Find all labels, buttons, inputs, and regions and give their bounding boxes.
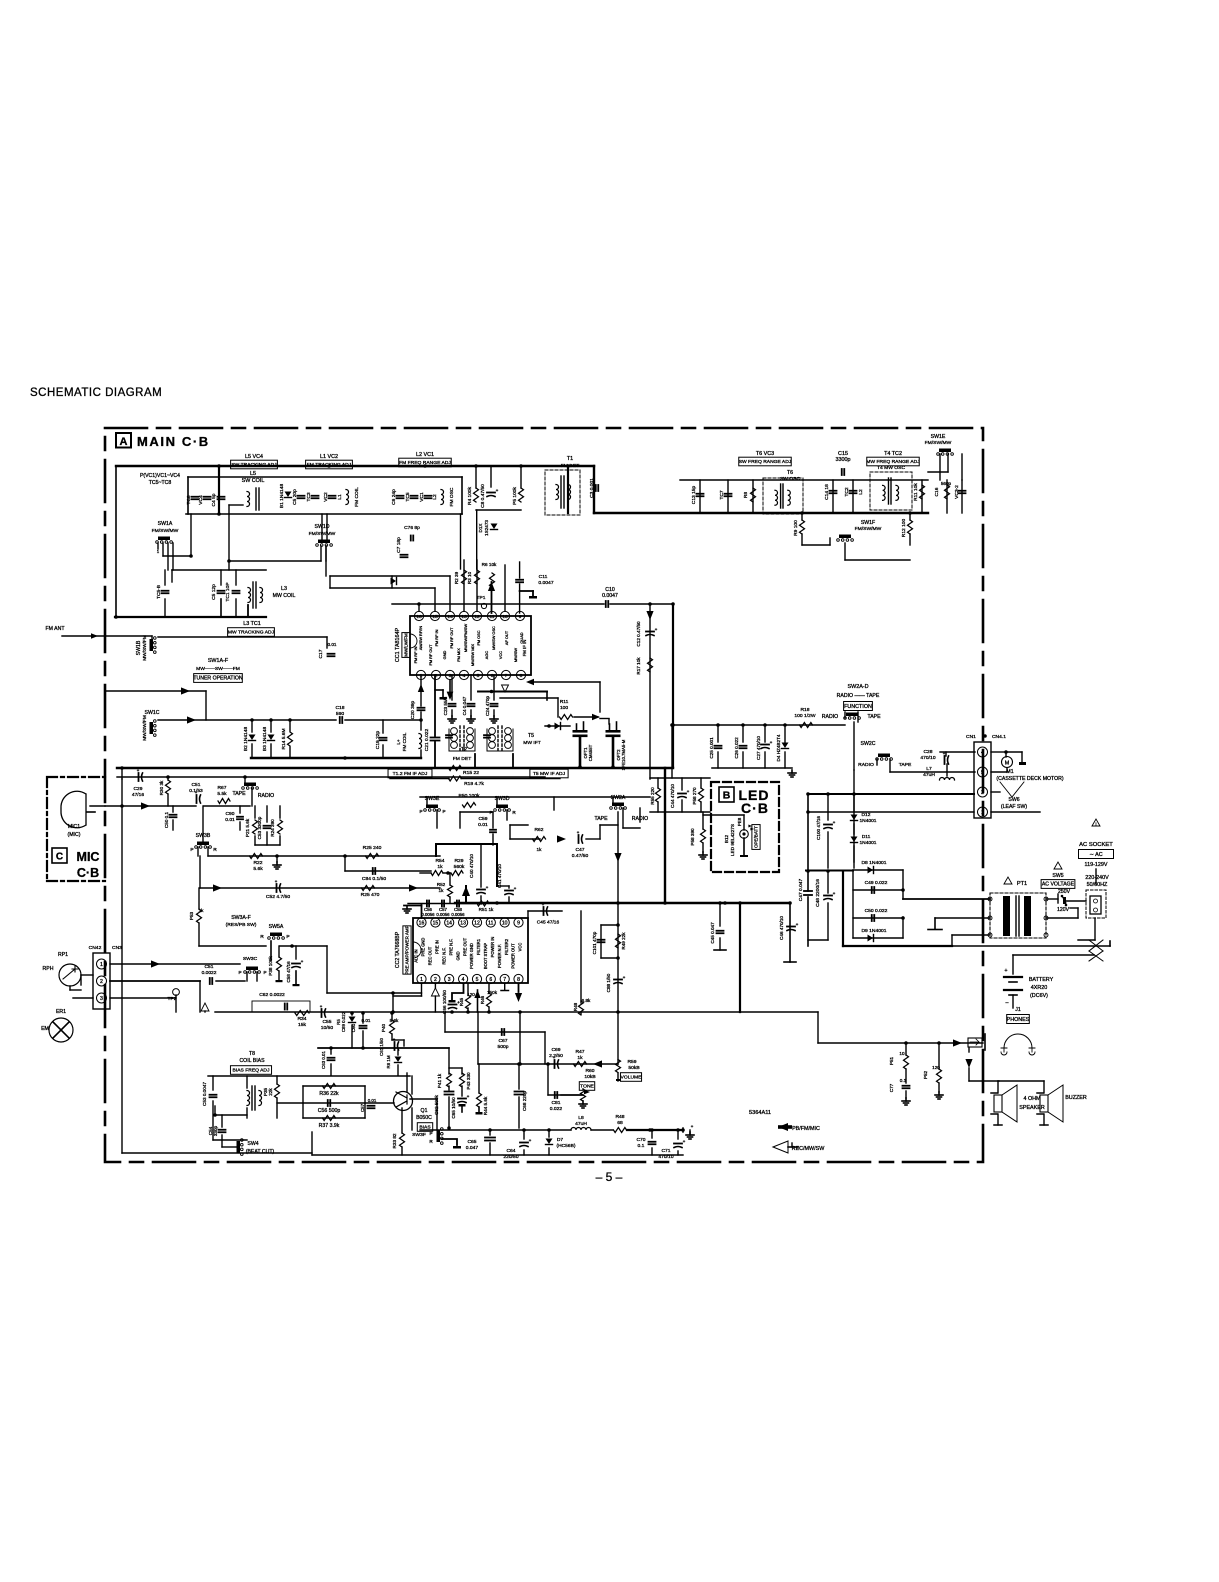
svg-text:P: P (190, 847, 193, 853)
svg-text:FM MIX: FM MIX (456, 648, 461, 662)
svg-text:C101 470p: C101 470p (592, 931, 597, 954)
svg-text:R46: R46 (480, 995, 485, 1004)
svg-text:–: – (1006, 1000, 1009, 1006)
svg-text:R15 22: R15 22 (463, 770, 479, 776)
svg-text:0.01: 0.01 (225, 817, 235, 823)
svg-text:47/16: 47/16 (132, 792, 144, 798)
svg-text:SW1C: SW1C (145, 710, 160, 716)
svg-text:P51: P51 (889, 1056, 894, 1065)
svg-text:+: + (301, 959, 304, 964)
svg-text:SW1A-F: SW1A-F (208, 658, 229, 664)
svg-text:B050C: B050C (416, 1115, 432, 1121)
svg-text:P40: P40 (381, 1023, 386, 1032)
svg-text:P21 5.6k: P21 5.6k (245, 818, 250, 837)
svg-text:R6 1M: R6 1M (386, 1055, 391, 1068)
svg-text:REC/MW/SW: REC/MW/SW (792, 1146, 826, 1152)
svg-text:L1: L1 (337, 494, 343, 500)
svg-text:C13 15p: C13 15p (691, 486, 697, 505)
svg-text:10kB: 10kB (584, 1074, 596, 1080)
svg-text:VC3-2: VC3-2 (954, 485, 960, 499)
svg-text:D8 1N4001: D8 1N4001 (861, 860, 886, 866)
svg-text:Q1: Q1 (421, 1108, 428, 1114)
svg-text:8: 8 (520, 673, 523, 679)
svg-text:+: + (486, 885, 489, 890)
svg-text:C64: C64 (506, 1148, 515, 1154)
svg-text:4XR20: 4XR20 (1031, 985, 1047, 991)
svg-text:4: 4 (463, 673, 466, 679)
svg-text:VC2: VC2 (323, 492, 329, 502)
svg-text:P52: P52 (923, 1070, 928, 1079)
svg-text:SFE10.7MA5-M: SFE10.7MA5-M (621, 739, 626, 770)
svg-text:11: 11 (488, 921, 493, 927)
svg-text:+: + (467, 1094, 470, 1099)
svg-text:220/50: 220/50 (503, 1154, 518, 1160)
svg-text:L8: L8 (578, 1115, 584, 1121)
svg-text:T2: T2 (461, 747, 467, 753)
svg-text:C90: C90 (226, 811, 235, 817)
svg-text:R48: R48 (615, 1114, 624, 1120)
svg-text:PE8: PE8 (737, 817, 742, 826)
svg-text:+: + (1004, 968, 1007, 974)
svg-text:C47: C47 (575, 847, 584, 853)
svg-text:R55 220: R55 220 (650, 787, 655, 805)
svg-text:250V: 250V (1058, 889, 1071, 895)
svg-text:FM/SW/MW: FM/SW/MW (152, 528, 179, 534)
svg-text:GND: GND (442, 651, 447, 660)
svg-text:SW3F: SW3F (412, 1132, 426, 1138)
svg-text:R6 10k: R6 10k (482, 562, 497, 567)
svg-text:+: + (687, 789, 690, 794)
svg-text:P58 390: P58 390 (690, 828, 695, 846)
svg-text:R47: R47 (575, 1049, 584, 1055)
svg-text:7: 7 (505, 673, 508, 679)
svg-text:+: + (623, 975, 626, 980)
svg-text:R18: R18 (800, 707, 809, 713)
svg-text:L5 VC4: L5 VC4 (245, 454, 263, 460)
svg-text:R: R (429, 1139, 433, 1144)
svg-text:FM DET: FM DET (453, 756, 471, 762)
svg-text:CM455T: CM455T (588, 744, 593, 761)
svg-text:0.0047: 0.0047 (602, 593, 618, 599)
svg-text:R33 82: R33 82 (392, 1133, 397, 1148)
svg-text:MW/SW MIX: MW/SW MIX (470, 644, 475, 667)
svg-text:1k: 1k (437, 864, 443, 870)
svg-text:C14 18: C14 18 (824, 484, 830, 500)
svg-text:+: + (833, 820, 836, 825)
svg-text:R17 10k: R17 10k (636, 657, 641, 675)
svg-text:560k: 560k (454, 864, 465, 870)
svg-text:FILTER2: FILTER2 (504, 938, 509, 955)
svg-text:SW1F: SW1F (861, 520, 875, 526)
svg-text:3: 3 (448, 977, 451, 983)
svg-text:B: B (723, 790, 731, 802)
svg-text:R45: R45 (459, 997, 464, 1006)
svg-text:R: R (260, 934, 264, 940)
svg-text:SW5: SW5 (1052, 873, 1063, 879)
svg-text:C84 0.1/50: C84 0.1/50 (362, 876, 386, 882)
svg-text:+: + (833, 891, 836, 896)
svg-text:P: P (286, 934, 289, 940)
svg-text:TAPE: TAPE (594, 816, 608, 822)
svg-text:SPEAKER: SPEAKER (1019, 1105, 1045, 1111)
svg-text:P: P (263, 970, 266, 975)
svg-text:(CASSETTE DECK MOTOR): (CASSETTE DECK MOTOR) (996, 776, 1063, 782)
svg-text:+: + (655, 627, 658, 632)
svg-text:RADIO: RADIO (258, 793, 274, 799)
svg-text:C41 470/10: C41 470/10 (497, 864, 502, 888)
svg-text:C60: C60 (351, 1023, 356, 1032)
svg-text:D9 1N4001: D9 1N4001 (861, 928, 886, 934)
svg-text:R44 5.6k: R44 5.6k (483, 1096, 488, 1115)
svg-text:C29: C29 (134, 786, 143, 792)
svg-text:R3 10: R3 10 (467, 571, 472, 584)
svg-text:AF OUT: AF OUT (504, 630, 509, 645)
svg-text:R14 5.6M: R14 5.6M (281, 728, 287, 749)
svg-text:0.047: 0.047 (466, 1145, 479, 1151)
svg-text:PRE AMP/POWER AMP: PRE AMP/POWER AMP (405, 925, 410, 974)
svg-text:C51: C51 (192, 782, 201, 788)
svg-text:5.5k: 5.5k (217, 791, 227, 797)
svg-text:10: 10 (502, 921, 508, 927)
svg-text:AGC: AGC (484, 651, 489, 660)
svg-text:!: ! (1095, 822, 1096, 827)
svg-text:MW/SW: MW/SW (513, 648, 518, 663)
svg-text:C4 0.047: C4 0.047 (462, 696, 467, 715)
svg-text:1: 1 (157, 549, 160, 554)
svg-text:C11: C11 (539, 574, 548, 580)
svg-text:MW FREQ RANGE ADJ: MW FREQ RANGE ADJ (866, 459, 920, 465)
svg-text:C67: C67 (498, 1038, 507, 1044)
svg-text:C77: C77 (889, 1083, 894, 1092)
svg-text:CC2 TA7668BP: CC2 TA7668BP (395, 931, 401, 968)
svg-text:R22: R22 (253, 860, 262, 866)
svg-text:FM/SW/MW: FM/SW/MW (855, 526, 882, 532)
svg-text:D12: D12 (862, 812, 871, 818)
svg-text:FM RF OUT: FM RF OUT (428, 644, 433, 666)
svg-text:FM OSC: FM OSC (449, 487, 455, 506)
svg-text:C61 1/50: C61 1/50 (379, 1038, 384, 1056)
svg-text:C16: C16 (934, 487, 940, 496)
svg-text:BATTERY: BATTERY (1029, 977, 1054, 983)
svg-text:SW3C: SW3C (243, 956, 258, 962)
svg-text:0.0056: 0.0056 (436, 912, 450, 917)
svg-text:5: 5 (477, 673, 480, 679)
svg-text:R2 39: R2 39 (454, 571, 459, 584)
svg-text:TAPE: TAPE (899, 762, 912, 768)
svg-text:POWER N.F.: POWER N.F. (497, 944, 502, 968)
svg-text:R: R (213, 847, 217, 853)
svg-text:R37 3.9k: R37 3.9k (319, 1123, 340, 1129)
svg-text:(BEAT CUT): (BEAT CUT) (246, 1149, 275, 1155)
svg-text:470/10: 470/10 (920, 755, 935, 761)
svg-text:R67: R67 (218, 785, 227, 791)
svg-text:B2 1N4148: B2 1N4148 (243, 727, 249, 752)
svg-text:MW COIL: MW COIL (273, 593, 296, 599)
svg-text:LED 9EL4227S: LED 9EL4227S (730, 824, 735, 856)
svg-text:D1X: D1X (478, 524, 483, 533)
svg-text:+: + (691, 1124, 694, 1129)
svg-text:120V: 120V (1057, 907, 1070, 913)
svg-text:15k: 15k (298, 1022, 307, 1028)
svg-text:C: C (56, 852, 63, 863)
svg-text:OPE/BATT: OPE/BATT (754, 826, 759, 848)
svg-text:TC2: TC2 (844, 487, 850, 496)
svg-text:P53: P53 (189, 911, 194, 920)
svg-text:1S2473: 1S2473 (484, 520, 489, 536)
svg-text:(HC56B): (HC56B) (557, 1143, 576, 1149)
svg-text:R11 10k: R11 10k (913, 483, 919, 501)
svg-text:P50 100k: P50 100k (459, 793, 480, 799)
svg-text:C50 0.022: C50 0.022 (865, 908, 888, 914)
svg-text:C5 12p: C5 12p (211, 584, 217, 600)
svg-text:C5 20p: C5 20p (292, 489, 298, 505)
svg-text:0.47/50: 0.47/50 (572, 853, 589, 859)
svg-text:C25 0.001: C25 0.001 (709, 737, 714, 759)
svg-text:REC OUT: REC OUT (428, 946, 433, 965)
svg-text:5364A11: 5364A11 (749, 1110, 771, 1116)
svg-text:FM/SW/MW: FM/SW/MW (925, 440, 952, 446)
svg-text:(DC6V): (DC6V) (1030, 993, 1048, 999)
svg-text:C65: C65 (467, 1139, 476, 1145)
svg-text:FM ANT: FM ANT (46, 626, 66, 632)
svg-text:C71: C71 (661, 1148, 670, 1154)
svg-text:C58 47/16: C58 47/16 (286, 961, 291, 983)
svg-text:SW4: SW4 (247, 1141, 258, 1147)
svg-text:C26 0.022: C26 0.022 (734, 737, 739, 759)
svg-text:0.0056: 0.0056 (421, 912, 435, 917)
svg-text:R48: R48 (573, 1002, 578, 1011)
svg-text:4: 4 (462, 977, 465, 983)
svg-text:+: + (496, 488, 499, 493)
svg-text:0.01: 0.01 (327, 642, 336, 647)
svg-text:9: 9 (519, 614, 522, 620)
svg-text:FM COIL: FM COIL (354, 487, 360, 507)
svg-text:PT1: PT1 (1017, 881, 1027, 887)
svg-text:C53 0.0047: C53 0.0047 (202, 1082, 207, 1106)
svg-text:A: A (120, 436, 128, 448)
svg-text:EM: EM (41, 1026, 49, 1032)
svg-text:AC SOCKET: AC SOCKET (1079, 842, 1113, 848)
svg-text:R62: R62 (535, 827, 544, 833)
svg-text:B3 1N4148: B3 1N4148 (262, 727, 268, 752)
svg-text:560p: 560p (941, 481, 952, 486)
svg-text:PRE OUT: PRE OUT (462, 937, 467, 956)
svg-text:C51: C51 (205, 964, 214, 970)
svg-text:SW1A: SW1A (158, 521, 173, 527)
svg-text:AC VOLTAGE: AC VOLTAGE (1042, 882, 1075, 888)
svg-text:P(VC1)VC1~VC4: P(VC1)VC1~VC4 (140, 473, 180, 479)
svg-text:R54: R54 (435, 858, 444, 864)
svg-text:6: 6 (489, 977, 492, 983)
svg-text:C17: C17 (318, 649, 324, 658)
svg-text:P: P (419, 809, 422, 814)
svg-text:D7: D7 (557, 1137, 564, 1143)
svg-text:12: 12 (474, 614, 480, 620)
svg-text:TAPE: TAPE (867, 714, 881, 720)
svg-text:T4 MW OSC: T4 MW OSC (877, 465, 905, 471)
svg-text:B12: B12 (724, 834, 729, 843)
svg-text:R25 240: R25 240 (363, 845, 382, 851)
svg-text:2: 2 (981, 790, 984, 796)
svg-text:T5: T5 (528, 733, 534, 739)
svg-text:T1.2 FM IF ADJ: T1.2 FM IF ADJ (393, 771, 428, 777)
svg-text:C49 0.022: C49 0.022 (865, 880, 888, 886)
svg-text:1k: 1k (537, 847, 543, 852)
svg-text:TC5~TC8: TC5~TC8 (149, 480, 172, 486)
svg-text:220-240V: 220-240V (1085, 875, 1109, 881)
svg-text:L2 VC1: L2 VC1 (416, 452, 434, 458)
svg-text:FUNCTION: FUNCTION (844, 704, 872, 710)
svg-text:119-129V: 119-129V (1085, 862, 1108, 868)
svg-text:5: 5 (476, 977, 479, 983)
svg-text:1k: 1k (439, 888, 445, 893)
svg-text:0.0056: 0.0056 (451, 912, 465, 917)
svg-text:R49 22k: R49 22k (621, 932, 626, 950)
svg-text:PRE GND: PRE GND (421, 938, 426, 957)
svg-text:10: 10 (502, 614, 508, 620)
svg-text:C63 0.01: C63 0.01 (321, 1051, 326, 1069)
svg-text:9: 9 (517, 921, 520, 927)
svg-text:R34: R34 (297, 1016, 306, 1022)
svg-text:C89 0.022: C89 0.022 (341, 1011, 346, 1032)
svg-text:SW COIL: SW COIL (242, 478, 265, 484)
svg-text:AM/SW RF/IN: AM/SW RF/IN (418, 626, 423, 651)
svg-text:16: 16 (416, 614, 422, 620)
svg-text:– 5 –: – 5 – (596, 1170, 623, 1184)
svg-text:+: + (683, 1139, 686, 1144)
svg-text:MIC1: MIC1 (68, 824, 80, 830)
svg-text:C46 470/10: C46 470/10 (779, 916, 784, 940)
svg-text:14: 14 (447, 614, 453, 620)
svg-text:L3 TC1: L3 TC1 (243, 621, 261, 627)
svg-text:C·B: C·B (741, 800, 769, 816)
svg-text:MAIN C·B: MAIN C·B (137, 434, 210, 449)
svg-text:3: 3 (100, 996, 103, 1002)
svg-text:C59: C59 (478, 816, 487, 822)
svg-text:6: 6 (491, 673, 494, 679)
svg-text:C3 0.001: C3 0.001 (589, 478, 595, 498)
svg-text:C56 500p: C56 500p (318, 1108, 341, 1114)
svg-text:P: P (429, 1131, 432, 1136)
svg-text:1: 1 (981, 810, 984, 816)
svg-text:FM COIL: FM COIL (402, 732, 407, 751)
svg-text:VCC: VCC (518, 943, 523, 952)
svg-text:C6 24p: C6 24p (391, 489, 397, 505)
svg-text:FM IF IN: FM IF IN (522, 640, 527, 657)
svg-text:MW——SW——FM: MW——SW——FM (196, 666, 240, 672)
svg-text:C48 2200/16: C48 2200/16 (815, 879, 821, 907)
svg-text:SW2C: SW2C (861, 741, 876, 747)
svg-text:SW6: SW6 (1008, 797, 1019, 803)
svg-text:POWER GND: POWER GND (469, 943, 474, 969)
svg-text:C50 0.1: C50 0.1 (164, 811, 169, 828)
svg-text:R8: R8 (743, 492, 749, 499)
svg-text:BUZZER: BUZZER (1065, 1095, 1087, 1101)
svg-text:C24 470p: C24 470p (485, 696, 490, 716)
svg-text:CN3: CN3 (112, 945, 122, 951)
svg-text:SW3A-F: SW3A-F (231, 915, 251, 921)
svg-text:+: + (529, 1138, 532, 1143)
svg-text:BIAS: BIAS (419, 1125, 431, 1131)
svg-text:R59: R59 (627, 1059, 636, 1065)
svg-text:50kB: 50kB (628, 1065, 640, 1071)
svg-text:ER1: ER1 (56, 1009, 66, 1015)
svg-text:2: 2 (100, 979, 103, 985)
svg-text:8: 8 (517, 977, 520, 983)
svg-text:FM RF OUT: FM RF OUT (449, 627, 454, 649)
svg-text:L7: L7 (926, 766, 932, 772)
svg-text:47uH: 47uH (575, 1121, 587, 1127)
svg-text:C20 39p: C20 39p (410, 701, 416, 720)
svg-text:C88 1/50: C88 1/50 (606, 973, 611, 992)
svg-text:TC5: TC5 (405, 492, 411, 501)
svg-text:MW/SW/FM: MW/SW/FM (142, 715, 148, 741)
svg-text:TC7: TC7 (719, 490, 725, 499)
svg-text:16: 16 (419, 921, 425, 927)
svg-text:SW1B: SW1B (136, 640, 142, 655)
svg-text:1N4001: 1N4001 (859, 840, 876, 846)
svg-text:BIAS FREQ ADJ: BIAS FREQ ADJ (233, 1068, 270, 1074)
svg-text:100 1/2W: 100 1/2W (794, 713, 816, 719)
svg-text:R11: R11 (560, 699, 569, 705)
svg-text:D4 HZ4B2T4: D4 HZ4B2T4 (776, 734, 781, 761)
svg-text:10/50: 10/50 (321, 1025, 334, 1031)
svg-text:T4 TC2: T4 TC2 (884, 451, 902, 457)
svg-text:P: P (238, 970, 241, 975)
svg-text:PRE N.F.: PRE N.F. (448, 939, 453, 956)
svg-text:BOOT STRAP: BOOT STRAP (483, 943, 488, 970)
svg-text:C7 18p: C7 18p (396, 537, 402, 553)
svg-text:C8 0.47/50: C8 0.47/50 (480, 484, 486, 508)
svg-text:C45 47/16: C45 47/16 (537, 920, 560, 926)
svg-text:47uH: 47uH (923, 772, 935, 778)
svg-text:P58 270: P58 270 (692, 787, 697, 805)
svg-text:FM RF IN: FM RF IN (434, 629, 439, 646)
svg-text:REC N.F.: REC N.F. (441, 947, 446, 964)
svg-text:C55: C55 (322, 1019, 331, 1025)
svg-text:C45 0.047: C45 0.047 (710, 922, 715, 944)
svg-text:MW/SW OSC: MW/SW OSC (491, 626, 496, 650)
svg-text:P41 1k: P41 1k (437, 1073, 442, 1088)
svg-text:R52: R52 (437, 882, 446, 887)
svg-text:(LEAF SW): (LEAF SW) (1001, 804, 1027, 810)
svg-text:SW2A-D: SW2A-D (848, 684, 869, 690)
svg-text:T6 VC3: T6 VC3 (756, 451, 774, 457)
svg-text:MW/LW/FM: MW/LW/FM (404, 633, 409, 657)
svg-text:R4 100k: R4 100k (467, 486, 473, 505)
svg-text:C4 5p: C4 5p (211, 493, 217, 506)
svg-text:C23 55/5: C23 55/5 (443, 696, 448, 715)
svg-text:R24 390: R24 390 (270, 819, 275, 837)
svg-text:COIL BIAS: COIL BIAS (239, 1058, 265, 1064)
svg-text:TC5-B: TC5-B (156, 585, 162, 599)
svg-text:RADIO —— TAPE: RADIO —— TAPE (837, 693, 880, 699)
svg-text:R9 100: R9 100 (793, 520, 799, 536)
svg-text:GND: GND (455, 951, 460, 960)
svg-text:C21 0.022: C21 0.022 (424, 728, 430, 751)
svg-text:CN4.1: CN4.1 (992, 734, 1006, 740)
svg-text:50/60HZ: 50/60HZ (1087, 882, 1108, 888)
svg-text:1: 1 (420, 977, 423, 983)
svg-text:3300p: 3300p (836, 457, 851, 463)
svg-text:13: 13 (461, 614, 467, 620)
svg-text:TP1: TP1 (477, 595, 486, 601)
svg-text:(RES/PB SW): (RES/PB SW) (226, 922, 257, 928)
svg-text:1N4001: 1N4001 (859, 818, 876, 824)
svg-text:C100 47/16: C100 47/16 (816, 816, 821, 840)
svg-text:0.0047: 0.0047 (538, 580, 553, 586)
svg-text:MW/SW/FM: MW/SW/FM (142, 635, 148, 661)
